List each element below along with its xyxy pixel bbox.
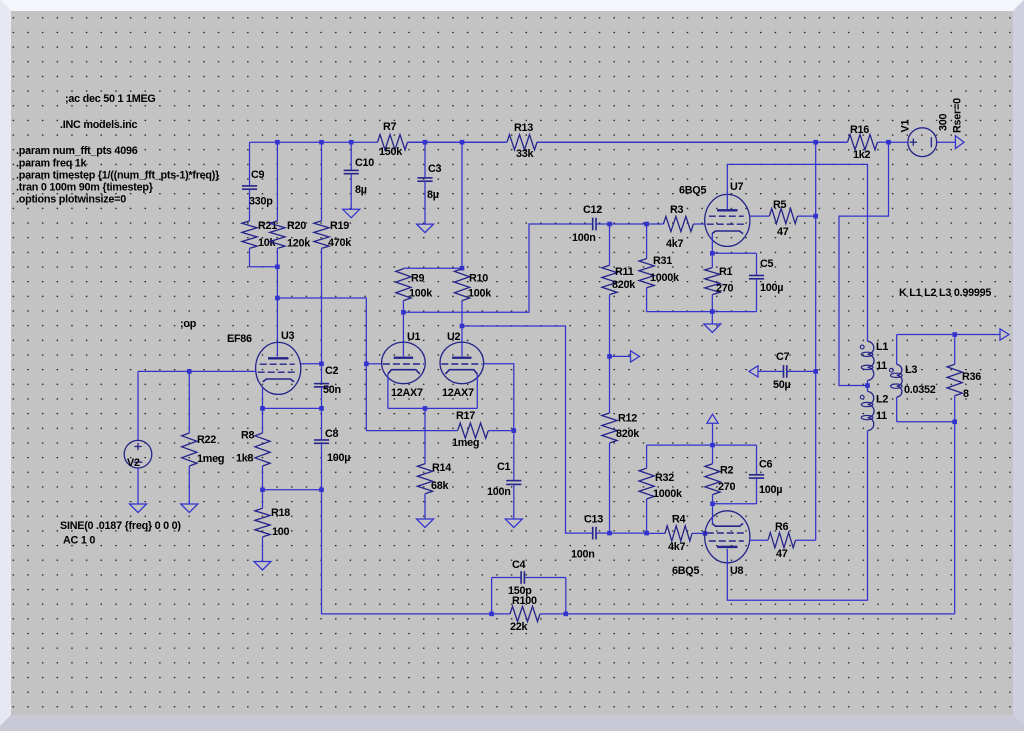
svg-text:L2: L2 [876, 394, 888, 406]
svg-text:6BQ5: 6BQ5 [679, 185, 706, 197]
junction R2 bottom node [710, 502, 715, 507]
svg-text:R13: R13 [514, 122, 533, 134]
label R14 [432, 462, 451, 474]
svg-text:C5: C5 [760, 258, 774, 270]
svg-text:L1: L1 [876, 341, 888, 353]
wire U1 grid node down to R17 [365, 364, 367, 431]
directive tran [16, 182, 154, 194]
svg-text:100n: 100n [487, 486, 511, 498]
resistor R14 68k [417, 408, 432, 519]
resistor R12 820k [602, 356, 617, 533]
svg-text:U8: U8 [730, 565, 744, 577]
resistor R9 100k [396, 268, 411, 312]
junction R9/R10 top node [460, 266, 465, 271]
vacuum tube U3 EF86 [256, 342, 301, 394]
label 820k R12 [616, 428, 640, 440]
port arrow left at C7 [749, 366, 758, 377]
label R3 [670, 204, 684, 216]
svg-text:AC 1 0: AC 1 0 [63, 535, 95, 547]
wire cathode to C5 top [712, 252, 756, 254]
svg-text:R19: R19 [330, 220, 349, 232]
directive inc [60, 119, 137, 131]
label 47 R5 [777, 226, 789, 238]
capacitor C8 100u [314, 408, 329, 489]
junction U1 grid node [364, 362, 369, 367]
label L1 [876, 341, 888, 353]
resistor R3 4k7 [647, 216, 705, 231]
vacuum tube U1 12AX7 [382, 342, 426, 384]
label 100n C1 [487, 486, 511, 498]
label 100 R18 [272, 526, 290, 538]
svg-text:100µ: 100µ [760, 282, 783, 294]
svg-text:Rser=0: Rser=0 [952, 98, 964, 133]
junction screen bus top [813, 140, 818, 145]
label C2 [325, 365, 339, 377]
svg-text:R10: R10 [469, 273, 488, 285]
label 1k8 [236, 453, 254, 465]
svg-text:R100: R100 [512, 595, 537, 607]
label 11 L2 [876, 410, 887, 422]
label R2 [720, 465, 734, 477]
svg-text:1meg: 1meg [452, 437, 479, 449]
junction R20-R21 node [275, 265, 280, 270]
capacitor C7 50u [758, 365, 816, 378]
wire U2 cathode lead [476, 374, 478, 408]
svg-text:C8: C8 [325, 428, 339, 440]
svg-text:R18: R18 [271, 507, 290, 519]
svg-text:K L1 L2 L3 0.99995: K L1 L2 L3 0.99995 [899, 287, 991, 299]
label 1000k R31 [650, 272, 680, 284]
svg-text:.INC models.inc: .INC models.inc [60, 119, 137, 131]
wire U7 cathode lead [711, 234, 713, 254]
label C4 [512, 559, 526, 571]
port arrow right at V1 output [955, 136, 964, 149]
wire U2 grid lead [484, 364, 514, 431]
resistor R11 820k [602, 224, 617, 356]
label R13 [514, 122, 533, 134]
wire U3 anode to U1 grid [277, 298, 366, 364]
junction node to U1 grid link [275, 296, 280, 301]
label R21 [258, 220, 277, 232]
label R7 [383, 121, 397, 133]
label 11 L1 [876, 360, 887, 372]
label R19 [330, 220, 349, 232]
svg-text:R1: R1 [719, 266, 733, 278]
directive options [16, 194, 126, 206]
wire feedback line left vertical [322, 490, 492, 614]
wire U1 cathode lead [387, 374, 389, 408]
label 270 R1 [716, 283, 734, 295]
wire U3 grid input [138, 370, 256, 372]
svg-text:R36: R36 [962, 371, 981, 383]
wire U3 cathode lead [262, 387, 264, 408]
svg-text:R5: R5 [773, 199, 787, 211]
svg-text:R32: R32 [655, 472, 674, 484]
label 270 R2 [718, 481, 736, 493]
ground under R18 [254, 562, 271, 571]
ground under C1 [505, 519, 522, 528]
resistor R19 470k [314, 142, 329, 364]
svg-text:R12: R12 [618, 413, 637, 425]
wire top B+ bus segment 1 [250, 141, 378, 143]
wire U2 anode to C13 riser [462, 326, 593, 533]
wire R31 bottom rail [647, 311, 757, 313]
capacitor C6 100u [749, 445, 764, 504]
svg-text:R7: R7 [383, 121, 397, 133]
wire U1 anode lead [402, 312, 404, 356]
svg-text:120k: 120k [287, 238, 311, 250]
label V1 [900, 120, 912, 133]
wire U7 anode to OPT [727, 164, 867, 341]
junction R1 bottom node [710, 309, 715, 314]
wire V1 right lead [937, 141, 955, 143]
svg-text:100: 100 [272, 526, 290, 538]
junction R5 right node [813, 214, 818, 219]
wire output down to feedback bus [954, 422, 956, 614]
resistor R6 47 [750, 533, 816, 548]
label R11 [615, 266, 634, 278]
label V2 [127, 457, 140, 469]
svg-text:R16: R16 [850, 124, 869, 136]
svg-text:150k: 150k [379, 146, 403, 158]
wire C12 node to R31 node [610, 223, 647, 225]
label R22 [197, 434, 216, 446]
resistor R10 100k [454, 268, 469, 326]
svg-text:C3: C3 [428, 163, 442, 175]
directive ac [65, 93, 156, 105]
wire screen supply vertical [815, 142, 817, 540]
wire bus down to R10 [461, 142, 463, 268]
svg-text:SINE(0 .0187 {freq} 0 0 0): SINE(0 .0187 {freq} 0 0 0) [60, 520, 181, 532]
wire U1 grid lead [366, 363, 381, 365]
label C12 [583, 204, 602, 216]
label 12AX7 U2 [442, 387, 474, 399]
svg-text:4k7: 4k7 [668, 541, 686, 553]
junction C12 out node [607, 222, 612, 227]
svg-text:8µ: 8µ [355, 184, 367, 196]
svg-text:100µ: 100µ [327, 452, 350, 464]
svg-text:V2: V2 [127, 457, 140, 469]
junction C2 bottom node [319, 406, 324, 411]
label C7 [776, 351, 790, 363]
svg-text:EF86: EF86 [227, 333, 252, 345]
label R36 [962, 371, 981, 383]
svg-text:12AX7: 12AX7 [442, 387, 474, 399]
directive param2 [16, 158, 88, 170]
svg-text:270: 270 [716, 283, 734, 295]
resistor R100 22k [492, 606, 566, 621]
label 50n [323, 384, 341, 396]
svg-text:R14: R14 [432, 462, 451, 474]
label 330p [249, 196, 273, 208]
svg-text:1000k: 1000k [653, 488, 683, 500]
junction R36 bottom node [952, 420, 957, 425]
svg-text:C2: C2 [325, 365, 339, 377]
resistor R36 8 [947, 335, 962, 422]
vacuum tube U8 6BQ5 flipped [705, 511, 750, 563]
junction R8 bottom node [260, 488, 265, 493]
label L3 [905, 364, 917, 376]
junction R19 top [319, 140, 324, 145]
svg-text:C4: C4 [512, 559, 526, 571]
resistor R2 270 [705, 445, 720, 504]
label 100k R10 [468, 288, 492, 300]
port arrow right output [1000, 329, 1009, 340]
inductor L2 [860, 386, 874, 432]
inductor L1 [860, 341, 874, 385]
junction U3 screen node [319, 362, 324, 367]
svg-text:33k: 33k [516, 148, 535, 160]
label C6 [759, 459, 773, 471]
wire U1 anode to C12 riser [403, 224, 592, 312]
label U3 [281, 330, 295, 342]
label R9 [411, 273, 425, 285]
svg-text:47: 47 [776, 548, 788, 560]
resistor R5 47 [750, 209, 816, 224]
label 47 R6 [776, 548, 788, 560]
svg-text:C12: C12 [583, 204, 602, 216]
label R31 [653, 255, 672, 267]
svg-text:8: 8 [963, 388, 969, 400]
svg-text:V1: V1 [900, 120, 912, 133]
label 4k7 R4 [668, 541, 686, 553]
svg-text:R2: R2 [720, 465, 734, 477]
wire L3 top [897, 334, 955, 336]
svg-text:11: 11 [876, 360, 887, 372]
svg-text:C1: C1 [497, 461, 511, 473]
junction R3 left node [644, 222, 649, 227]
svg-text:300: 300 [938, 113, 950, 131]
label 0.0352 [904, 384, 936, 396]
svg-text:8µ: 8µ [427, 189, 439, 201]
label EF86 [227, 333, 252, 345]
svg-text:1meg: 1meg [197, 453, 224, 465]
label 1k2 [853, 149, 871, 161]
wire feedback bus right [566, 613, 955, 615]
label 33k [516, 148, 535, 160]
capacitor C12 100n [593, 218, 610, 231]
label 100u C6 [759, 484, 782, 496]
svg-text:R31: R31 [653, 255, 672, 267]
label C5 [760, 258, 774, 270]
directive param1 [16, 145, 138, 157]
label 470k [328, 237, 352, 249]
ground under C3 [417, 224, 434, 233]
svg-text:.param timestep {1/((num_fft_p: .param timestep {1/((num_fft_pts-1)*freq… [16, 170, 220, 182]
junction U1 anode node [401, 310, 406, 315]
resistor R1 270 [705, 253, 720, 311]
junction L3/R36 top node [952, 332, 957, 337]
label R5 [773, 199, 787, 211]
svg-text:R22: R22 [197, 434, 216, 446]
label 150k [379, 146, 403, 158]
capacitor C2 50n [314, 364, 329, 409]
label R10 [469, 273, 488, 285]
svg-text:68k: 68k [431, 480, 450, 492]
label C9 [251, 169, 265, 181]
label C13 [584, 514, 603, 526]
label 12AX7 U1 [391, 387, 423, 399]
label 8 R36 [963, 388, 969, 400]
label U8 [730, 565, 744, 577]
junction U2 anode node [460, 324, 465, 329]
junction C7 right node [813, 369, 818, 374]
wire top B+ bus segment 2 [408, 141, 508, 143]
wire cathode bus U1-U2 [388, 407, 477, 409]
label 6BQ5 U8 [672, 565, 699, 577]
junction R20 top [275, 140, 280, 145]
label 150p [508, 585, 532, 597]
wire V1 left lead [889, 141, 909, 143]
inductor L3 [890, 335, 903, 422]
resistor R16 1k2 [537, 135, 889, 150]
svg-text:1k2: 1k2 [853, 149, 871, 161]
label 4k7 R3 [666, 238, 684, 250]
directive param3 [16, 170, 220, 182]
svg-text:C7: C7 [776, 351, 790, 363]
svg-text:22k: 22k [510, 621, 529, 633]
capacitor C13 100n [593, 527, 610, 540]
wire R20 node down to U3 anode [276, 267, 278, 357]
svg-text:6BQ5: 6BQ5 [672, 565, 699, 577]
label 1meg R17 [452, 437, 479, 449]
wire R21 bottom to R20 node [250, 266, 278, 268]
svg-text:100µ: 100µ [759, 484, 782, 496]
vacuum tube U2 12AX7 mirrored [440, 342, 484, 384]
wire to output port [955, 334, 1000, 336]
junction C10 top [349, 140, 354, 145]
svg-text:U7: U7 [730, 181, 744, 193]
junction cathode bus center [423, 406, 428, 411]
label R12 [618, 413, 637, 425]
label R4 [672, 514, 686, 526]
label R6 [775, 521, 789, 533]
ground under R22 [181, 504, 198, 513]
junction V1 node [886, 140, 891, 145]
label 22k [510, 621, 529, 633]
label R100 [512, 595, 537, 607]
svg-text:100k: 100k [468, 288, 492, 300]
svg-text:;ac dec 50 1 1MEG: ;ac dec 50 1 1MEG [65, 93, 156, 105]
capacitor C10 8u [344, 142, 359, 209]
label C8 [325, 428, 339, 440]
port arrow right at splitter node [631, 351, 640, 362]
label U1 [407, 331, 421, 343]
svg-text:50µ: 50µ [773, 379, 791, 391]
label 1meg R22 [197, 453, 224, 465]
label 300 [938, 113, 950, 131]
resistor R22 1meg [182, 371, 197, 504]
svg-text:50n: 50n [323, 384, 341, 396]
resistor R18 100 [255, 490, 270, 562]
label 8u C3 [427, 189, 439, 201]
svg-text:.param freq 1k: .param freq 1k [16, 158, 88, 170]
svg-text:.options plotwinsize=0: .options plotwinsize=0 [16, 194, 126, 206]
wire C4 right drop [565, 578, 567, 614]
label K coupling [899, 287, 991, 299]
junction R11/R12 node [607, 354, 612, 359]
resistor R32 1000k [639, 445, 654, 533]
svg-text:1000k: 1000k [650, 272, 680, 284]
label 68k [431, 480, 450, 492]
wire C6 bottom to cathode [713, 503, 757, 505]
label 50u C7 [773, 379, 791, 391]
svg-text:R6: R6 [775, 521, 789, 533]
svg-text:R20: R20 [287, 220, 306, 232]
svg-text:330p: 330p [249, 196, 273, 208]
junction U7 cathode node [710, 251, 715, 256]
junction C8 bottom node [319, 488, 324, 493]
svg-text:270: 270 [718, 481, 736, 493]
label 6BQ5 U7 [679, 185, 706, 197]
label C3 [428, 163, 442, 175]
port arrow up at lower cathode [707, 414, 718, 423]
ground under R1/C5 node [704, 312, 721, 333]
label R8 [241, 430, 255, 442]
wire cathode node to C2 node [263, 407, 322, 409]
capacitor C5 100u [749, 253, 764, 311]
label C10 [355, 157, 374, 169]
label R18 [271, 507, 290, 519]
label 100n C12 [572, 232, 596, 244]
label C1 [497, 461, 511, 473]
svg-text:.tran 0 100m 90m {timestep}: .tran 0 100m 90m {timestep} [16, 182, 154, 194]
junction U8 grid [703, 531, 708, 536]
junction V2/R22 node [187, 369, 192, 374]
svg-text:U3: U3 [281, 330, 295, 342]
svg-text:C9: C9 [251, 169, 265, 181]
svg-text:R11: R11 [615, 266, 634, 278]
ground under V2 [130, 468, 147, 513]
svg-text:R9: R9 [411, 273, 425, 285]
svg-text:100n: 100n [572, 232, 596, 244]
resistor R20 120k [270, 142, 285, 267]
label R17 [456, 410, 475, 422]
svg-text:100k: 100k [409, 288, 433, 300]
svg-text:C10: C10 [355, 157, 374, 169]
wire U8 anode to OPT [727, 431, 867, 600]
label 120k [287, 238, 311, 250]
wire B+ to OPT center tap [839, 142, 889, 385]
wire V2 to grid node [137, 371, 139, 440]
svg-text:U2: U2 [447, 331, 461, 343]
junction R10 bus [460, 140, 465, 145]
voltage source V2 [124, 440, 152, 468]
label R32 [655, 472, 674, 484]
svg-text:L3: L3 [905, 364, 917, 376]
label U7 [730, 181, 744, 193]
label R1 [719, 266, 733, 278]
resistor R13 33k [507, 135, 848, 150]
wire U2 anode lead [461, 326, 463, 356]
label 8u C10 [355, 184, 367, 196]
label R20 [287, 220, 306, 232]
label 100u C5 [760, 282, 783, 294]
svg-text:C13: C13 [584, 514, 603, 526]
junction C3 top [423, 140, 428, 145]
label 10k [258, 237, 277, 249]
svg-text:820k: 820k [616, 428, 640, 440]
svg-text:.param num_fft_pts 4096: .param num_fft_pts 4096 [16, 145, 138, 157]
svg-text:R4: R4 [672, 514, 686, 526]
junction C4 left node [489, 612, 494, 617]
wire L3 bottom [897, 421, 955, 423]
svg-text:;op: ;op [180, 318, 197, 330]
vacuum tube U7 6BQ5 [705, 194, 750, 246]
label 1000k R32 [653, 488, 683, 500]
svg-text:0.0352: 0.0352 [904, 384, 936, 396]
junction R17 right node [512, 428, 517, 433]
